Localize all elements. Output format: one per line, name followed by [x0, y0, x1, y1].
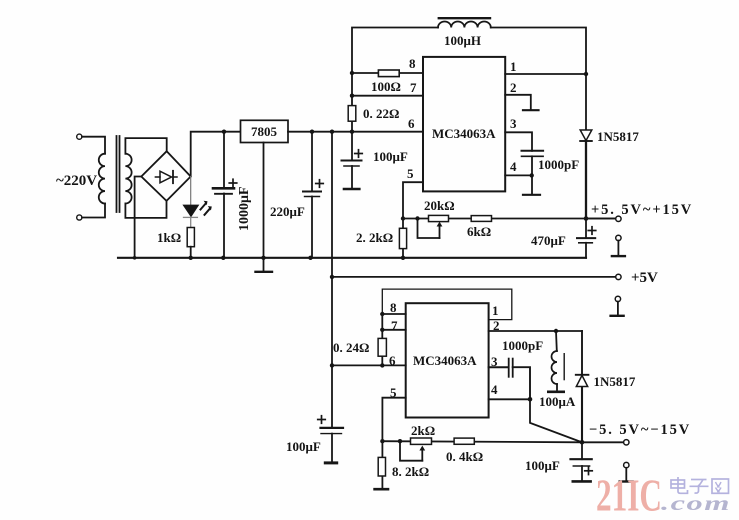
- junction 2.2k ground: [401, 256, 405, 260]
- ground bar pin2: [523, 109, 539, 111]
- resistor R 1kOhm: [187, 228, 194, 247]
- svg-text:20kΩ: 20kΩ: [424, 198, 455, 213]
- capacitor C2 220uF: [303, 132, 321, 258]
- capacitor C7 100uF bottom-right: [571, 442, 592, 481]
- junction pin7 left: [380, 328, 384, 332]
- svg-text:3: 3: [510, 116, 517, 131]
- junction dot 0.22 bottom rail: [350, 130, 354, 134]
- diode D3 1N5817: [576, 375, 589, 387]
- svg-text:6: 6: [389, 353, 396, 368]
- junction dot pin8 left: [350, 71, 354, 75]
- svg-text:100μA: 100μA: [539, 394, 576, 409]
- svg-text:~220V: ~220V: [56, 173, 97, 189]
- wire: 7805 output rail to IC1 pin6: [288, 131, 423, 133]
- output terminal +5.5V~+15V: [586, 218, 616, 220]
- wire: output feedback line: [403, 218, 616, 220]
- svg-text:2: 2: [493, 318, 500, 333]
- svg-text:100μF: 100μF: [373, 149, 408, 164]
- glyph wang: [712, 479, 729, 493]
- terminal +5V output: [616, 274, 621, 279]
- wire: secondary top to bridge top vertex: [125, 138, 166, 154]
- svg-text:6: 6: [408, 116, 415, 131]
- wire: top terminal to transformer primary: [82, 137, 105, 154]
- svg-text:5: 5: [390, 385, 397, 400]
- wire: pin3 through series 1000pF: [489, 359, 530, 400]
- svg-text:2: 2: [510, 80, 517, 95]
- wire: pin1 to right rail: [505, 73, 586, 75]
- junction dot output node plus: [584, 216, 589, 221]
- svg-text:100μH: 100μH: [444, 33, 481, 48]
- junction dot C1 top: [222, 130, 226, 134]
- ground terminal B: [611, 296, 624, 316]
- IC U1 MC34063A box: [423, 57, 505, 192]
- junction wiper2: [398, 439, 402, 443]
- svg-text:MC34063A: MC34063A: [413, 353, 477, 368]
- wiper of 2k: [400, 441, 425, 461]
- bridge rectifier diamond: [141, 151, 190, 201]
- resistor R 100 Ohm: [378, 70, 399, 77]
- svg-text:100μF: 100μF: [525, 458, 560, 473]
- junction dot pin4: [530, 173, 534, 177]
- wire: top rail right segment: [491, 28, 586, 131]
- capacitor C6 100uF bottom-left: [321, 428, 344, 463]
- ground rail of top section: [118, 257, 586, 259]
- glyph dian: [671, 477, 688, 493]
- svg-text:0. 24Ω: 0. 24Ω: [333, 340, 369, 355]
- wire: pin5 down to divider: [403, 182, 423, 218]
- wire: pin6 line: [332, 364, 406, 366]
- resistor R 2.2k: [399, 219, 406, 258]
- inductor L1 core bar: [439, 17, 490, 19]
- wire: right vertical through diode: [581, 331, 583, 375]
- wire: secondary bottom to bridge bottom vertex: [125, 201, 166, 218]
- svg-text:220μF: 220μF: [270, 204, 305, 219]
- junction dot 220uF top: [310, 130, 314, 134]
- svg-text:1N5817: 1N5817: [594, 374, 636, 389]
- svg-text:2kΩ: 2kΩ: [411, 423, 435, 438]
- svg-text:1: 1: [510, 59, 517, 74]
- svg-text:100Ω: 100Ω: [371, 79, 401, 94]
- wire: bottom terminal to transformer primary: [82, 204, 105, 218]
- polarity plus C7 100uF: [584, 466, 593, 475]
- node: AC input terminal bottom: [77, 215, 82, 220]
- wire: pin7 stub: [382, 329, 405, 331]
- svg-text:+5V: +5V: [631, 270, 658, 286]
- ground bar pin4: [523, 194, 540, 196]
- svg-text:7: 7: [410, 80, 417, 95]
- LED emission arrows: [201, 201, 212, 215]
- junction dot pin7 left: [350, 94, 354, 98]
- wire: pin4 stub: [505, 174, 532, 176]
- svg-text:.com: .com: [661, 491, 731, 515]
- resistor R 0.4k: [454, 438, 474, 444]
- svg-text:8: 8: [409, 56, 416, 71]
- svg-text:MC34063A: MC34063A: [432, 126, 496, 141]
- diode D2 1N5817: [580, 130, 592, 141]
- wire: diode cathode down to output node: [585, 141, 587, 219]
- bottom divider line: [382, 441, 582, 442]
- resistor R 6k: [471, 216, 491, 222]
- svg-text:0. 22Ω: 0. 22Ω: [363, 106, 399, 121]
- svg-text:−5. 5V~−15V: −5. 5V~−15V: [589, 422, 691, 438]
- svg-text:470μF: 470μF: [531, 233, 566, 248]
- watermark 21IC logo: [596, 470, 731, 520]
- junction pin6 line: [380, 363, 384, 367]
- wire: pin5 down: [382, 398, 405, 442]
- svg-text:1000pF: 1000pF: [502, 338, 543, 353]
- svg-text:4: 4: [510, 159, 517, 174]
- junction dot +5V branch top: [330, 130, 334, 134]
- wire: bridge right vertex down to LED: [190, 177, 192, 206]
- wire: 7805 ground lead: [263, 143, 265, 258]
- wire: pin2 line to right: [489, 330, 582, 332]
- svg-text:8. 2kΩ: 8. 2kΩ: [392, 464, 429, 479]
- wire: 1k resistor to ground rail: [190, 247, 192, 258]
- wire: LED to resistor 1k: [190, 217, 192, 227]
- ground terminal C: [620, 462, 633, 481]
- svg-text:4: 4: [491, 382, 498, 397]
- junction pin5 divider2: [380, 439, 384, 443]
- regulator U3 7805 box: [241, 120, 289, 142]
- wire: pin4 down and diagonal to output node: [530, 399, 582, 442]
- svg-text:21IC: 21IC: [596, 470, 662, 520]
- polarity plus C1 1000uF: [228, 178, 237, 187]
- junction dot 220uF bottom: [308, 256, 312, 260]
- wire: pin2 to ground bar: [505, 95, 531, 110]
- wire: pin7 to left rail: [352, 95, 423, 97]
- junction wiper1: [415, 216, 419, 220]
- capacitor C4 1000pF: [522, 151, 544, 195]
- wire: pin3 down to 1000pF: [505, 132, 532, 151]
- ground bar: [256, 271, 273, 273]
- svg-text:6kΩ: 6kΩ: [467, 224, 491, 239]
- svg-text:8: 8: [390, 300, 397, 315]
- ground terminal A: [612, 235, 625, 256]
- capacitor C3 100uF: [342, 132, 362, 189]
- transformer core: [116, 136, 118, 212]
- node: AC input terminal top: [77, 134, 82, 139]
- terminal +5.5V output: [616, 216, 621, 221]
- svg-text:7: 7: [391, 318, 398, 333]
- svg-text:0. 4kΩ: 0. 4kΩ: [446, 449, 483, 464]
- junction dot LED chain at ground rail: [189, 256, 193, 260]
- svg-text:1000pF: 1000pF: [538, 157, 579, 172]
- svg-text:1kΩ: 1kΩ: [157, 230, 181, 245]
- svg-text:1N5817: 1N5817: [597, 129, 639, 144]
- wire: top rail left segment: [352, 28, 438, 132]
- svg-text:3: 3: [491, 354, 498, 369]
- bridge diode symbol: [155, 171, 177, 183]
- svg-text:+5. 5V~+15V: +5. 5V~+15V: [591, 202, 693, 218]
- wiper of 20k: [418, 219, 443, 239]
- inductor L1 100uH: [438, 21, 491, 27]
- polarity plus C5 470uF: [587, 226, 596, 235]
- junction inductor tap: [554, 329, 558, 333]
- capacitor C1 1000uF: [213, 132, 234, 258]
- resistor R 0.22 Ohm: [348, 106, 356, 122]
- svg-text:100μF: 100μF: [286, 439, 321, 454]
- feedback loop wire pin8 to pin1: [382, 289, 512, 320]
- junction dot +5V rail tee: [330, 275, 334, 279]
- polarity plus C3 100uF: [354, 149, 363, 158]
- potentiometer RP 2k: [411, 438, 432, 444]
- IC U2 MC34063A box: [406, 303, 489, 417]
- svg-text:1: 1: [492, 303, 499, 318]
- wire: pin4 stub: [489, 398, 530, 400]
- inductor L2 100uA: [548, 331, 564, 392]
- junction dot pin6 line bottom tee: [330, 363, 334, 367]
- transformer T1 primary winding: [99, 154, 105, 204]
- output line -5.5V: [582, 441, 624, 443]
- polarity plus C6 100uF: [317, 415, 326, 424]
- +5V rail: [332, 276, 616, 278]
- svg-text:5: 5: [407, 166, 414, 181]
- capacitor C5 470uF: [577, 219, 595, 258]
- LED D1: [184, 206, 198, 218]
- ground symbol stub: [263, 258, 265, 272]
- potentiometer RP 20k: [429, 215, 449, 221]
- wire: pin8 stub: [382, 313, 405, 315]
- wire: bridge left vertex down to ground rail: [135, 177, 142, 258]
- resistor R 8.2k: [375, 441, 388, 489]
- junction dot output node minus: [580, 440, 585, 445]
- wire: +5V vertical main line: [331, 132, 333, 428]
- junction dot C1 bottom: [221, 256, 225, 260]
- svg-text:7805: 7805: [251, 124, 278, 139]
- junction dot pin1 right: [584, 72, 588, 76]
- resistor R 0.24 Ohm: [378, 314, 386, 365]
- junction pin4 node: [528, 397, 533, 402]
- svg-text:1000μF: 1000μF: [237, 187, 252, 232]
- svg-text:2. 2kΩ: 2. 2kΩ: [356, 230, 393, 245]
- junction dot bridge minus at rail: [133, 256, 137, 260]
- wire: pin8 to left rail with 100 ohm: [352, 72, 423, 74]
- terminal -5.5V output: [624, 440, 629, 445]
- junction pin8 left: [380, 312, 384, 316]
- transformer T1 secondary winding: [125, 154, 131, 204]
- glyph zi: [690, 480, 709, 494]
- polarity plus C2 220uF: [315, 179, 324, 188]
- wire: bridge right vertex up to DC rail: [191, 132, 241, 177]
- junction dot pin5 divider: [401, 216, 405, 220]
